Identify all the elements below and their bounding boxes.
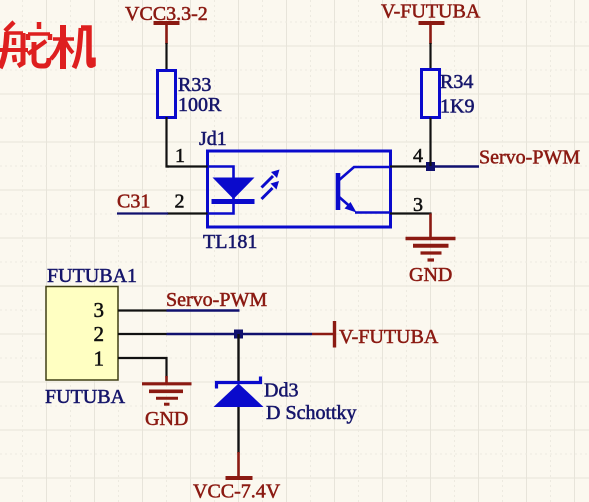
pin 2 of FUTUBA1 [118,333,167,335]
svg-text:TL181: TL181 [203,231,257,253]
net Servo-PWM wire and label (top) [431,147,581,169]
svg-text:FUTUBA: FUTUBA [45,386,126,408]
power port V-FUTUBA (top) [381,1,481,45]
svg-text:1: 1 [175,145,185,167]
net Servo-PWM wire and label (bottom) [166,289,267,311]
svg-text:R34: R34 [440,71,473,93]
svg-text:1: 1 [94,347,105,371]
diode Dd3 D Schottky [214,377,357,425]
svg-text:C31: C31 [117,191,150,213]
svg-text:Dd3: Dd3 [264,380,298,402]
svg-text:100R: 100R [178,94,222,116]
svg-text:3: 3 [94,298,105,322]
wire [429,118,431,167]
node junction FUTUBA1 pin2 / Dd3 [234,330,243,339]
svg-text:VCC-7.4V: VCC-7.4V [193,481,281,502]
pin 3 of FUTUBA1 [118,309,167,311]
optocoupler Jd1 TL181 body [199,128,391,253]
pin 3 of Jd1 [390,194,431,216]
pin 1 of FUTUBA1 [118,358,167,378]
svg-text:1K9: 1K9 [440,96,474,118]
label 舵机 (servo) red chinese text [0,22,93,69]
svg-text:2: 2 [175,191,185,213]
wire [165,43,167,71]
wire [167,117,170,167]
svg-text:Servo-PWM: Servo-PWM [479,147,580,169]
pin 4 of Jd1 [390,145,431,167]
wire [237,334,239,382]
svg-text:R33: R33 [178,74,211,96]
node junction pin4/R34/Servo-PWM [426,162,435,171]
net C31 wire and label [117,191,168,214]
svg-text:V-FUTUBA: V-FUTUBA [381,1,481,23]
svg-text:D Schottky: D Schottky [266,402,357,424]
svg-text:Jd1: Jd1 [199,128,227,150]
svg-text:FUTUBA1: FUTUBA1 [47,265,137,287]
svg-text:GND: GND [145,408,188,430]
svg-text:2: 2 [94,322,105,346]
wire [237,407,239,453]
ground GND (left) [142,376,192,430]
svg-text:V-FUTUBA: V-FUTUBA [339,326,439,348]
wire [429,43,431,70]
LED emitter inside Jd1 [208,167,255,214]
ground GND (right) [406,214,456,287]
svg-text:Servo-PWM: Servo-PWM [166,289,267,311]
svg-text:4: 4 [413,145,423,167]
pin 2 of Jd1 [167,191,208,214]
net V-FUTUBA wire (bottom) [167,333,313,335]
phototransistor inside Jd1 [338,167,390,213]
resistor R33 100R [158,71,223,118]
svg-text:GND: GND [409,264,452,286]
resistor R34 1K9 [422,70,475,118]
LED light arrows [262,170,280,200]
pin 1 of Jd1 [167,145,209,167]
power port V-FUTUBA (bar, mid) [312,321,439,348]
power port VCC-7.4V [193,452,281,502]
connector FUTUBA1 body [46,265,137,380]
power port VCC3.3-2 [125,3,208,44]
